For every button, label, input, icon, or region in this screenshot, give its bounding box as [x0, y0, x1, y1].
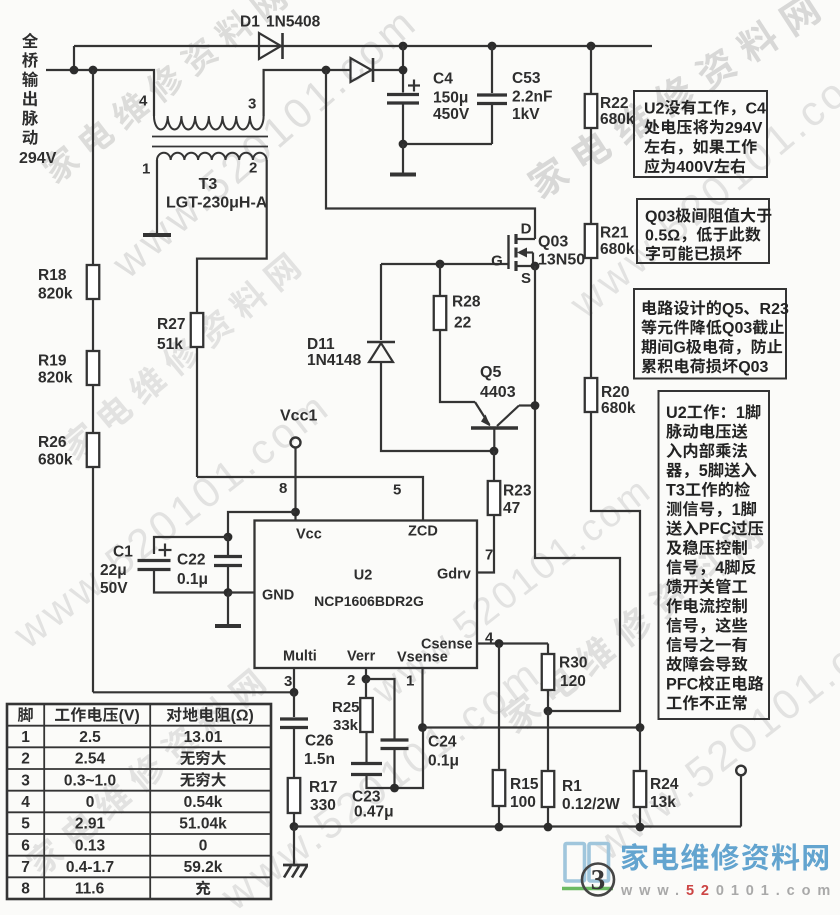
junction: Multi node: [290, 688, 299, 697]
capacitor C1 22u 50V (polarized): [159, 549, 172, 551]
wire: R28 to Q5 emitter: [440, 330, 475, 402]
label Vcc1: [280, 407, 317, 424]
svg-text:G: G: [491, 252, 503, 269]
label D1 1N5408: [240, 14, 260, 31]
table row pin 8: [21, 881, 30, 898]
svg-text:294V: 294V: [725, 120, 763, 137]
label C26 1.5n: [305, 733, 334, 750]
svg-text:C53: C53: [512, 70, 541, 87]
svg-text:4: 4: [715, 559, 724, 577]
label NCP1606BDR2G: [314, 593, 424, 609]
wire: R23 top stem: [493, 451, 495, 481]
svg-text:400V: 400V: [676, 159, 714, 176]
svg-text:Q03: Q03: [645, 208, 675, 225]
svg-text:3: 3: [248, 95, 256, 112]
svg-text:0.3~1.0: 0.3~1.0: [64, 772, 116, 789]
svg-text:120: 120: [560, 673, 586, 690]
label D11 1N4148: [307, 336, 335, 353]
svg-text:1N5408: 1N5408: [266, 14, 321, 31]
wire: rail to output terminal: [740, 775, 742, 827]
capacitor C22 0.1u: [214, 555, 242, 558]
junction: gate / R28: [436, 260, 445, 269]
table row pin 5: [21, 816, 30, 833]
svg-text:Q03: Q03: [738, 359, 768, 376]
wire: Vcc to C22/C1 top: [228, 512, 296, 537]
capacitor C23 0.47u: [351, 762, 382, 765]
svg-text:680k: 680k: [601, 400, 636, 417]
table row pin 3: [21, 772, 30, 789]
wire: R15 bottom stem: [498, 806, 500, 827]
svg-text:R26: R26: [38, 434, 67, 451]
resistor R15 100: [493, 770, 506, 806]
svg-text:1: 1: [736, 404, 745, 422]
svg-text:5: 5: [393, 481, 401, 498]
svg-text:GND: GND: [262, 588, 294, 604]
wire: T3 pin2 to R27: [197, 160, 267, 313]
label C23 0.47u: [352, 789, 381, 806]
label LGT-230uH-A: [166, 194, 268, 211]
svg-text:59.2k: 59.2k: [184, 859, 223, 876]
wire: C26 top stem: [293, 692, 295, 717]
junction: R24 / rail: [636, 823, 645, 832]
wire: R20 bottom to divider drop: [591, 412, 640, 728]
svg-text:R19: R19: [38, 353, 67, 370]
transistor Q03 13N50 (N-MOSFET): [516, 238, 535, 240]
capacitor C53 2.2nF 1kV: [477, 93, 507, 96]
svg-text:4: 4: [21, 794, 30, 811]
transistor Q5 4403 (PNP): [471, 426, 518, 429]
svg-text:5: 5: [699, 462, 708, 480]
junction: C22 bottom / GND pin: [224, 588, 233, 597]
svg-text:8: 8: [21, 881, 30, 898]
svg-text:3: 3: [284, 673, 292, 690]
wire: C53 top stem: [491, 46, 493, 93]
svg-text:R23: R23: [503, 483, 532, 500]
svg-text:0.5Ω: 0.5Ω: [645, 227, 680, 244]
svg-text:7: 7: [485, 546, 493, 563]
note box: U2 not working C4 voltage: [634, 91, 767, 177]
svg-text:(V): (V): [119, 708, 140, 725]
label C1 22u 50V: [113, 544, 133, 561]
svg-text:D: D: [521, 220, 532, 237]
svg-text:5: 5: [21, 816, 30, 833]
table header row: [18, 707, 33, 722]
wire: divider to Multi pin 3: [93, 691, 294, 693]
label pin 8: [279, 480, 287, 497]
wire: Vsense feedback line: [423, 726, 641, 728]
label pin 7: [485, 546, 493, 563]
label GND pin name: [262, 588, 294, 604]
label T3 pin 3: [248, 95, 256, 112]
svg-text:680k: 680k: [38, 452, 73, 469]
op-amp U2 NCP1606BDR2G (PFC controller IC): [255, 521, 478, 669]
label U2: [354, 568, 373, 584]
junction: T3-D2-Q03 drain tap: [322, 66, 331, 75]
junction: top bus / C53: [488, 42, 497, 51]
junction: divider tap R18 top: [89, 66, 98, 75]
terminal Vcc1 (open circle): [291, 438, 301, 448]
capacitor C26 1.5n: [280, 717, 308, 720]
svg-text:PFC: PFC: [699, 520, 732, 538]
label C4 150u 450V: [433, 71, 453, 88]
svg-text:C4: C4: [433, 71, 453, 88]
label Gdrv pin name: [437, 567, 471, 583]
svg-text:T3: T3: [666, 481, 685, 499]
label Q03 pin D: [521, 220, 532, 237]
wire: Q5 base drop: [493, 428, 495, 451]
wire: C23 bottom to comp node: [367, 728, 424, 789]
core of transformer T3: [152, 136, 268, 138]
svg-text:C22: C22: [177, 552, 205, 569]
svg-text:450V: 450V: [433, 106, 470, 123]
svg-text:820k: 820k: [38, 370, 73, 387]
svg-text:C1: C1: [113, 544, 133, 561]
svg-text:0.4-1.7: 0.4-1.7: [66, 859, 114, 876]
label Vsense pin name: [397, 650, 448, 666]
label T3 pin 1: [142, 160, 150, 177]
junction: Csense / R15: [495, 639, 504, 648]
label Vcc pin name: [296, 527, 322, 543]
svg-text:1: 1: [406, 672, 414, 689]
wire: ground stem below R17: [293, 827, 295, 865]
table: pin voltages and resistance to ground: [7, 704, 271, 899]
svg-text:4: 4: [139, 92, 148, 109]
wire: C26 to R17: [293, 728, 295, 779]
svg-text:3: 3: [21, 772, 30, 789]
note box: Q5 R23 purpose: [634, 289, 786, 379]
label R27 51k: [157, 316, 185, 333]
resistor R22 680k: [585, 94, 598, 128]
svg-text:2.91: 2.91: [75, 816, 106, 833]
wire: drain net from tap to Q03: [326, 70, 535, 239]
node: rectified input 全桥输出脉动294V: [22, 33, 38, 48]
label pin 3: [284, 673, 292, 690]
svg-text:100: 100: [510, 794, 536, 811]
svg-text:PFC: PFC: [666, 675, 699, 693]
svg-text:2.5: 2.5: [79, 729, 101, 746]
wire: C4 bottom stem: [402, 103, 404, 144]
resistor R17 330: [288, 778, 301, 813]
wire: Verr to C24 branch: [366, 679, 395, 739]
wire: R30 bottom stem: [547, 690, 549, 711]
wire: ground node to GND pin: [228, 591, 255, 593]
resistor R19 820k: [87, 351, 100, 385]
svg-text:13N50: 13N50: [538, 251, 585, 268]
wire: R27 bottom to Vcc rail: [196, 347, 198, 477]
label R22 680k: [600, 95, 628, 112]
resistor R18 820k: [87, 265, 100, 299]
wire: R25 top stem: [365, 679, 367, 698]
label R28 22: [452, 294, 481, 311]
label pin 5: [393, 481, 401, 498]
label R19 820k: [38, 353, 67, 370]
svg-text:4403: 4403: [480, 384, 516, 401]
label pin 2: [347, 672, 355, 689]
svg-text:R1: R1: [562, 778, 582, 795]
svg-text:6: 6: [21, 837, 30, 854]
wire: input feed to T3 pin4: [46, 70, 154, 116]
junction: C4 bottom ground node: [399, 140, 408, 149]
logo: green underline: [562, 887, 613, 891]
svg-text:Q03: Q03: [722, 320, 752, 337]
svg-text:1kV: 1kV: [512, 106, 540, 123]
label T3 pin 2: [249, 159, 257, 176]
wire: R28 top stem: [439, 264, 441, 296]
svg-text:33k: 33k: [333, 717, 359, 734]
label ZCD pin name: [408, 524, 438, 540]
junction: R1 / rail: [544, 823, 553, 832]
resistor R25 33k: [360, 698, 373, 732]
wire: input riser: [73, 46, 75, 70]
label C22 0.1u: [177, 552, 205, 569]
wire: R21 to R20: [590, 258, 592, 378]
wire: left divider rail: [92, 70, 94, 692]
junction: D2 output at C4: [399, 66, 408, 75]
wire: D11 anode to R23 node: [381, 362, 494, 451]
svg-text:R24: R24: [650, 776, 679, 793]
wire: R15 drop: [498, 644, 500, 771]
wire: R24 bottom stem: [639, 807, 641, 827]
ground: signal ground (hatched): [283, 864, 308, 867]
resistor R27 51k: [191, 313, 204, 347]
svg-text:0.12/2W: 0.12/2W: [562, 796, 620, 813]
junction: divider bottom / R24: [636, 723, 645, 732]
junction: Q03 source node: [531, 262, 540, 271]
junction: R17 / ground rail: [290, 822, 299, 831]
wire: R22 to R21: [590, 128, 592, 224]
svg-text:1: 1: [142, 160, 150, 177]
wire: top bus from input to boost diode output: [74, 45, 652, 47]
svg-text:680k: 680k: [600, 241, 635, 258]
svg-text:2: 2: [21, 751, 30, 768]
svg-text:R27: R27: [157, 316, 185, 333]
terminal: output test point (open circle): [736, 766, 746, 776]
resistor R1 0.12/2W (shunt): [542, 771, 555, 807]
junction: input node A: [70, 66, 79, 75]
svg-text:820k: 820k: [38, 286, 73, 303]
label pin 4: [485, 629, 494, 646]
resistor R28 22: [434, 296, 447, 330]
resistor R24 13k: [634, 771, 647, 807]
note box: Q03 junction resistance: [637, 199, 769, 263]
label Q5: [480, 364, 501, 381]
label C24 0.1u: [428, 734, 457, 751]
svg-text:C26: C26: [305, 733, 334, 750]
svg-text:R17: R17: [309, 779, 337, 796]
label Multi pin name: [283, 649, 317, 665]
svg-text:0.1μ: 0.1μ: [428, 753, 459, 770]
wire: R1 drop: [547, 711, 549, 771]
svg-text:1: 1: [732, 501, 741, 519]
label 4403: [480, 384, 516, 401]
wire: gate lead extension to D11: [381, 263, 440, 265]
resistor R21 680k: [585, 224, 598, 258]
svg-text:R20: R20: [601, 384, 629, 401]
diode D1 1N5408: [259, 33, 281, 59]
svg-text:R23: R23: [760, 301, 789, 318]
junction: C22 top: [224, 533, 233, 542]
wire: Vcc1 drop to pin 8: [294, 448, 296, 521]
svg-text:C4: C4: [745, 100, 766, 117]
svg-text:R28: R28: [452, 294, 481, 311]
label 13N50: [538, 251, 585, 268]
wire: C22 top to C1 top: [154, 537, 228, 554]
junction: pin8 / C22 tie: [291, 508, 300, 517]
svg-text:2: 2: [347, 672, 355, 689]
note box: U2 operation description: [659, 391, 770, 719]
wire: R30 top stem: [547, 644, 549, 655]
resistor R23 47: [488, 481, 501, 515]
svg-text:NCP1606BDR2G: NCP1606BDR2G: [314, 593, 424, 609]
svg-text:8: 8: [279, 480, 287, 497]
label R24 13k: [650, 776, 679, 793]
inductor T3 winding 4-3 (primary top): [154, 116, 264, 130]
label Csense pin name: [421, 637, 473, 653]
wire: Multi pin stub: [293, 668, 295, 692]
svg-text:1N4148: 1N4148: [307, 352, 362, 369]
label Verr pin name: [347, 649, 376, 665]
label R1 0.12/2W: [562, 778, 582, 795]
label Q03 pin G: [491, 252, 503, 269]
svg-text:U2: U2: [644, 100, 665, 117]
table row pin 7: [21, 859, 30, 876]
logo: book icon: [565, 844, 609, 882]
label R18 820k: [38, 267, 67, 284]
capacitor C24 0.1u: [381, 738, 409, 741]
label Q03: [538, 233, 568, 250]
svg-text:R22: R22: [600, 95, 628, 112]
wire: bottom ground rail: [294, 825, 741, 827]
wire: R1 bottom stem: [547, 807, 549, 827]
svg-text:150μ: 150μ: [433, 90, 468, 107]
svg-text:T3: T3: [199, 176, 218, 193]
svg-text:2.2nF: 2.2nF: [512, 89, 552, 106]
svg-text:47: 47: [503, 500, 520, 517]
table row pin 4: [21, 794, 30, 811]
svg-text:R21: R21: [600, 225, 629, 242]
wire: R25 to C23: [365, 732, 367, 762]
svg-text:294V: 294V: [19, 150, 57, 167]
wire: T3 pin3 riser to drain tap: [264, 70, 350, 116]
wire: C22 stems: [227, 537, 229, 557]
label R21 680k: [600, 225, 629, 242]
wire: source drop to CS route: [535, 266, 620, 711]
wire: Vcc rail R27 to ZCD pin 5: [197, 477, 423, 521]
svg-text:2: 2: [249, 159, 257, 176]
wire: R24 top stem: [639, 728, 641, 772]
wire: C53 bottom stem: [491, 104, 493, 145]
label R15 100: [510, 776, 539, 793]
svg-text:(Ω): (Ω): [231, 708, 254, 725]
wire: R17 bottom stem: [293, 813, 295, 827]
svg-text:G: G: [673, 340, 685, 357]
svg-text:Gdrv: Gdrv: [437, 567, 471, 583]
svg-text:330: 330: [310, 797, 336, 814]
svg-text:11.6: 11.6: [75, 881, 105, 898]
junction: Q5 base / D11 / R23: [490, 447, 499, 456]
svg-text:0: 0: [86, 794, 95, 811]
svg-text:www.520101.com: www.520101.com: [620, 883, 837, 899]
label R25 33k: [332, 699, 360, 716]
svg-text:0.54k: 0.54k: [184, 794, 223, 811]
svg-text:1.5n: 1.5n: [304, 751, 335, 768]
logo: circled 3 page marker: [582, 864, 614, 896]
svg-text:U2: U2: [666, 404, 687, 422]
label Q03 pin S: [521, 270, 531, 287]
resistor R20 680k: [585, 378, 598, 412]
svg-text:ZCD: ZCD: [408, 524, 438, 540]
svg-text:0.13: 0.13: [75, 837, 106, 854]
svg-text:50V: 50V: [100, 580, 128, 597]
inductor T3 winding 1-2 (aux): [157, 153, 267, 160]
svg-text:Multi: Multi: [283, 649, 317, 665]
label R20 680k: [601, 384, 629, 401]
svg-text:LGT-230μH-A: LGT-230μH-A: [166, 194, 268, 211]
logo: site name 家电维修资料网: [621, 843, 828, 871]
svg-text:R25: R25: [332, 699, 360, 716]
ground: T3 pin1: [143, 233, 171, 237]
junction: R15 / rail: [495, 823, 504, 832]
wire: R23 bottom to Gdrv pin 7: [478, 515, 495, 573]
svg-text:Q5: Q5: [722, 301, 743, 318]
svg-text:Vsense: Vsense: [397, 650, 448, 666]
resistor R26 680k: [87, 433, 100, 467]
svg-text:R30: R30: [559, 655, 587, 672]
svg-text:13k: 13k: [650, 794, 676, 811]
svg-text:Vcc1: Vcc1: [280, 407, 317, 424]
wire: Vsense pin stub: [421, 668, 423, 728]
svg-text:0: 0: [199, 837, 208, 854]
junction: Q5 collector to source line: [531, 401, 540, 410]
label R23 47: [503, 483, 532, 500]
junction: current sense node: [544, 707, 553, 716]
wire: ground stem below C4: [402, 144, 404, 173]
ground: IC ground: [215, 624, 241, 628]
junction: Verr node: [362, 675, 371, 684]
resistor R30 120: [542, 654, 555, 690]
svg-text:D1: D1: [240, 14, 260, 31]
svg-text:0.47μ: 0.47μ: [354, 804, 394, 821]
diode D2 (boost rectifier): [351, 58, 372, 82]
svg-text:3: 3: [591, 864, 606, 896]
svg-text:D11: D11: [307, 336, 335, 353]
wire: C24 bottom stem: [393, 749, 395, 789]
junction: top bus / divider R22: [587, 42, 596, 51]
wire: Csense pin stub: [478, 642, 549, 644]
svg-text:Q03: Q03: [538, 233, 568, 250]
svg-text:www.520101.com: www.520101.com: [102, 0, 426, 287]
wire: C1 bottom to ground node: [154, 570, 228, 593]
svg-text:680k: 680k: [600, 111, 635, 128]
label R26 680k: [38, 434, 67, 451]
diode D11 1N4148: [380, 264, 382, 340]
junction: Vsense node: [418, 723, 427, 732]
wire: D2 cathode to C4 node: [374, 69, 404, 71]
wire: C4/C53 bottom tie: [403, 143, 492, 145]
table row pin 1: [21, 729, 30, 746]
svg-text:R15: R15: [510, 776, 539, 793]
label T3: [199, 176, 218, 193]
svg-text:Verr: Verr: [347, 649, 376, 665]
svg-text:www.520101.com: www.520101.com: [560, 42, 840, 328]
wire: R22 top stem: [590, 46, 592, 94]
ground: bulk cap return: [390, 173, 416, 177]
svg-text:U2: U2: [354, 568, 373, 584]
svg-text:S: S: [521, 270, 531, 287]
svg-text:Vcc: Vcc: [296, 527, 322, 543]
capacitor C4 150u 450V (polarized): [408, 84, 420, 86]
label T3 pin 4: [139, 92, 148, 109]
